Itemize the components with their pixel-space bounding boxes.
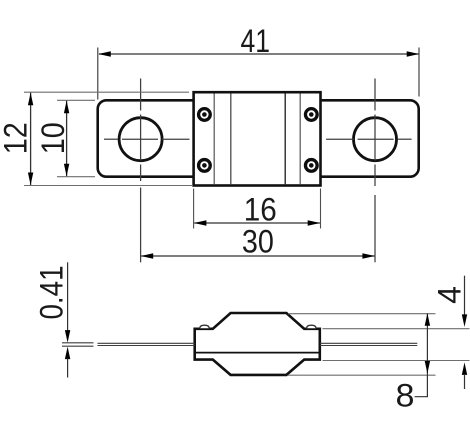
centerline horizontal right hole [326,138,412,140]
left mounting tab (top view) [98,100,200,176]
side view left rivet bump [200,325,209,328]
svg-text:10: 10 [35,122,71,154]
dimension 8 top arrow [425,313,430,326]
dimension 41 left arrow [98,51,111,56]
body inner line 2 [230,94,232,185]
dimension 16 line [194,222,320,224]
svg-text:30: 30 [242,223,274,259]
body inner line 3 [284,94,286,185]
fuse body (top view) [194,92,321,185]
dimension 30 right arrow [362,253,375,258]
extension line right hole to 30 dim [374,195,376,262]
dimension 4 lower line [464,374,466,389]
dimension 4 bottom extension line [323,360,470,362]
dimension 0.41 upper arrow [65,330,70,343]
right terminal blade [320,343,418,345]
centerline horizontal left hole [104,138,190,140]
dimension 10 bottom arrow [64,164,69,177]
rivet top-left [199,109,211,121]
right bolt hole [354,118,397,161]
dimension 10 bottom extension line [57,176,95,178]
extension line left hole to 30 dim [140,188,142,263]
dimension 4 lower arrow [462,362,467,375]
centerline vertical left hole [140,79,142,182]
side view body outline [195,313,320,375]
rivet bottom-right [305,160,317,172]
dimension 12 bottom extension line [24,185,193,187]
dimension 8 leader [415,375,428,397]
side view right rivet bump [307,325,316,328]
dimension 30 line [141,255,374,257]
dimension 12 bottom arrow [28,173,33,186]
left terminal blade [98,343,195,345]
dimension 4 top extension line [323,328,470,330]
body inner line 4 [299,94,301,185]
dimension 10 top extension line [57,99,95,101]
svg-text:12: 12 [0,122,33,154]
dimension 12 line [30,92,32,185]
dimension 4 upper line [464,276,466,316]
dimension 8 line [426,314,428,376]
dimension 10 top arrow [64,101,69,114]
dimension 16 right extension line [320,189,322,229]
rivet top-right [305,109,317,121]
dimension 41 right arrow [407,51,420,56]
dimension 0.41 upper line [67,262,69,331]
left terminal blade stub (before break) [62,343,94,346]
side view seam line [195,352,320,354]
svg-text:4: 4 [432,286,468,304]
dimension 16 left arrow [194,220,207,225]
dimension 41 left extension line [97,48,99,100]
dimension 8 bottom extension line [288,374,436,376]
svg-text:16: 16 [244,191,277,227]
dimension 0.41 lower arrow [65,347,70,360]
dimension 16 left extension line [193,189,195,229]
svg-text:8: 8 [396,378,415,414]
dimension 8 bottom arrow [425,361,430,374]
body inner line 1 [213,94,215,185]
svg-text:41: 41 [240,23,270,59]
dimension 0.41 lower line [67,359,69,378]
dimension 8 top extension line [288,313,436,315]
dimension 41 line [99,53,419,55]
dimension 41 right extension line [418,48,420,97]
dimension 4 upper arrow [462,314,467,327]
rivet bottom-left [199,160,211,172]
dimension 16 right arrow [308,220,321,225]
dimension 10 line [66,100,68,176]
right mounting tab (top view) [314,100,419,176]
centerline vertical right hole [374,79,376,187]
left bolt hole [119,118,162,161]
dimension 12 top extension line [24,91,189,93]
dimension 30 left arrow [141,253,154,258]
dimension 12 top arrow [28,93,33,106]
svg-text:0.41: 0.41 [34,266,70,320]
